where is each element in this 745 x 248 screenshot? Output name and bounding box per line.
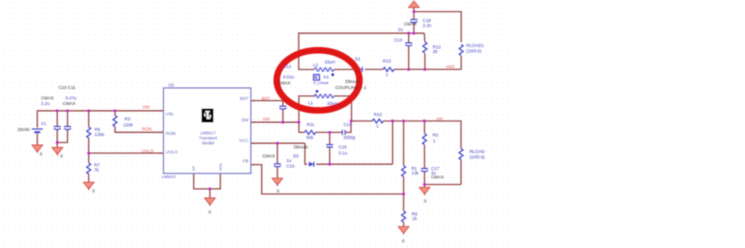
- svg-text:CMAX: CMAX: [431, 174, 444, 179]
- svg-text:K1: K1: [324, 74, 330, 79]
- svg-text:C13: C13: [394, 38, 403, 43]
- svg-text:RLOAD: RLOAD: [470, 149, 485, 154]
- svg-text:C15: C15: [339, 145, 348, 150]
- svg-text:C16: C16: [286, 163, 295, 168]
- svg-text:VIN: VIN: [143, 104, 150, 109]
- svg-text:D2: D2: [293, 154, 299, 159]
- svg-text:C12: C12: [283, 64, 292, 69]
- svg-text:D1: D1: [355, 56, 361, 61]
- svg-text:56k: 56k: [306, 135, 314, 140]
- svg-text:C14: C14: [344, 122, 353, 127]
- svg-text:7k: 7k: [94, 167, 99, 172]
- svg-text:UVLO: UVLO: [166, 150, 179, 155]
- svg-text:3300p: 3300p: [343, 135, 356, 140]
- svg-text:2k: 2k: [433, 49, 438, 54]
- svg-text:(10/0.6): (10/0.6): [466, 48, 482, 53]
- svg-text:CMAX: CMAX: [404, 21, 417, 26]
- svg-text:U1: U1: [169, 82, 175, 87]
- svg-text:RLOAD1: RLOAD1: [466, 43, 484, 48]
- svg-text:R10: R10: [374, 112, 383, 117]
- svg-text:V1: V1: [41, 121, 47, 126]
- svg-text:2u: 2u: [398, 27, 403, 32]
- svg-text:2.2n: 2.2n: [423, 23, 432, 28]
- svg-text:26Vdc: 26Vdc: [18, 127, 31, 132]
- svg-text:Dbreak: Dbreak: [294, 145, 309, 150]
- svg-text:0.47u: 0.47u: [66, 95, 78, 100]
- svg-text:BST: BST: [240, 96, 249, 101]
- svg-text:33uH: 33uH: [327, 101, 338, 106]
- svg-text:RON: RON: [166, 131, 176, 136]
- svg-text:125k: 125k: [95, 132, 105, 137]
- svg-text:LM5017: LM5017: [162, 174, 177, 179]
- svg-text:UVLO: UVLO: [142, 148, 154, 153]
- svg-text:1k: 1k: [412, 216, 417, 221]
- svg-text:out2: out2: [446, 64, 455, 69]
- svg-text:220k: 220k: [123, 122, 133, 127]
- svg-text:CMAX: CMAX: [63, 101, 76, 106]
- svg-text:VIN: VIN: [166, 112, 173, 117]
- svg-text:L2: L2: [313, 62, 318, 67]
- svg-text:(10/0.6): (10/0.6): [470, 155, 486, 160]
- svg-text:0.01u: 0.01u: [283, 75, 295, 80]
- svg-text:13k: 13k: [411, 171, 419, 176]
- svg-text:VCC: VCC: [239, 138, 248, 143]
- svg-text:BST: BST: [262, 96, 271, 101]
- svg-text:Dbreak: Dbreak: [345, 79, 360, 84]
- svg-text:K_Linear: K_Linear: [313, 81, 329, 85]
- svg-text:R2: R2: [433, 132, 439, 137]
- svg-text:1u: 1u: [286, 158, 291, 163]
- svg-text:R13: R13: [383, 59, 392, 64]
- svg-text:2.2u: 2.2u: [41, 101, 50, 106]
- svg-text:CMAX: CMAX: [41, 95, 54, 100]
- svg-text:COUPLING = 1: COUPLING = 1: [335, 85, 367, 90]
- svg-text:SW: SW: [241, 117, 249, 122]
- svg-text:CMAX: CMAX: [262, 154, 275, 159]
- svg-text:0.1u: 0.1u: [339, 151, 348, 156]
- svg-text:R11: R11: [307, 122, 315, 127]
- svg-text:CMAX: CMAX: [278, 80, 291, 85]
- svg-text:Model: Model: [202, 140, 214, 145]
- svg-text:L1: L1: [308, 101, 313, 106]
- svg-text:SW: SW: [263, 117, 271, 122]
- svg-text:R3: R3: [125, 116, 131, 121]
- svg-text:33uH: 33uH: [325, 60, 336, 65]
- svg-text:RON: RON: [142, 127, 152, 132]
- svg-text:C10 C11: C10 C11: [59, 85, 77, 90]
- svg-text:EP: EP: [192, 165, 196, 170]
- svg-text:RTN: RTN: [219, 163, 223, 171]
- svg-text:FB: FB: [243, 158, 249, 163]
- svg-text:out: out: [436, 116, 443, 121]
